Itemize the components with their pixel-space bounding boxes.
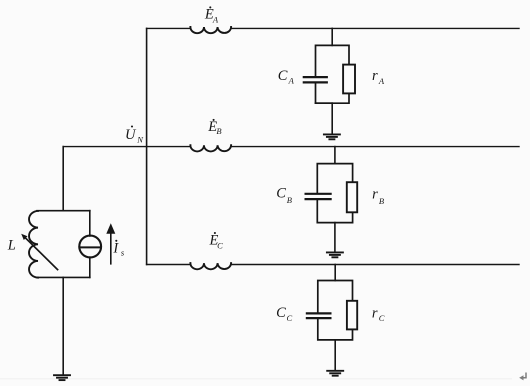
- svg-text:r: r: [372, 305, 378, 321]
- svg-text:C: C: [276, 186, 286, 202]
- capacitor CB plates: [306, 193, 331, 195]
- svg-text:A: A: [288, 76, 295, 86]
- arrow through L (variable inductor arrow): [26, 238, 58, 269]
- wire: bottom wire of L block: [37, 276, 90, 278]
- node frame RC block C: [318, 281, 353, 313]
- svg-text:s: s: [121, 247, 125, 257]
- svg-text:C: C: [217, 240, 223, 250]
- wire: phase A horizontal line right of coil: [231, 27, 519, 28]
- wire: phase C horizontal line left of coil: [147, 263, 191, 264]
- svg-text:C: C: [278, 68, 288, 84]
- wire: phase A horizontal line left of coil: [147, 27, 191, 28]
- svg-text:B: B: [216, 126, 221, 136]
- current source Is (circle with bar): [79, 236, 101, 258]
- inductor coil phase A: [190, 27, 231, 33]
- wire: stub from RC block C to ground: [334, 340, 336, 370]
- capacitor CC plates: [307, 312, 331, 314]
- node frame RC block A: [316, 45, 350, 76]
- wire: phase B horizontal line right of coil: [231, 145, 519, 146]
- node frame RC block B: [317, 164, 352, 193]
- svg-text:A: A: [212, 15, 219, 25]
- svg-text:A: A: [378, 76, 385, 86]
- wire: stub from phase B to RC block B: [334, 147, 336, 164]
- resistor rC: [347, 301, 357, 330]
- wire: left vertical bus from row A to row C: [146, 28, 148, 264]
- wire: stub from RC block B to ground: [334, 223, 336, 252]
- ground (below RC block A): [324, 133, 340, 135]
- svg-text:C: C: [276, 305, 286, 321]
- wire: top wire of L block: [37, 210, 90, 212]
- wire: current source bottom lead: [89, 257, 91, 277]
- wire: stub from phase A to RC block A: [331, 28, 333, 45]
- svg-text:B: B: [287, 195, 292, 205]
- svg-text:B: B: [379, 196, 384, 206]
- arrow Is (current direction): [110, 233, 112, 264]
- svg-text:N: N: [136, 134, 144, 144]
- svg-text:C: C: [287, 313, 293, 323]
- wire: drop to ground from L block: [62, 277, 64, 374]
- resistor rB: [347, 182, 357, 212]
- capacitor CA plates: [304, 76, 327, 78]
- wire: current source top lead: [89, 211, 91, 236]
- wire: drop from node N to compensation block: [62, 147, 64, 211]
- faint document line at bottom: [0, 378, 512, 379]
- wire: phase C horizontal line right of coil: [231, 263, 519, 264]
- svg-text:L: L: [7, 237, 16, 253]
- svg-text:r: r: [372, 187, 378, 203]
- svg-text:U: U: [125, 127, 137, 143]
- paragraph return mark (document artifact): [523, 373, 526, 378]
- svg-text:C: C: [379, 313, 385, 323]
- inductor L (variable, vertical coil): [29, 211, 38, 278]
- resistor rA: [343, 65, 355, 94]
- svg-text:r: r: [372, 68, 378, 84]
- wire: stub from phase C to RC block C: [334, 265, 336, 281]
- wire: phase B horizontal line left of coil: [63, 145, 190, 146]
- wire: stub from RC block A to ground: [331, 103, 333, 134]
- svg-text:I: I: [112, 241, 119, 257]
- ground (below RC block B): [327, 251, 343, 253]
- inductor coil phase C: [190, 263, 231, 269]
- ground (left, below L block): [54, 374, 70, 376]
- inductor coil phase B: [190, 145, 231, 151]
- ground (below RC block C): [327, 370, 343, 372]
